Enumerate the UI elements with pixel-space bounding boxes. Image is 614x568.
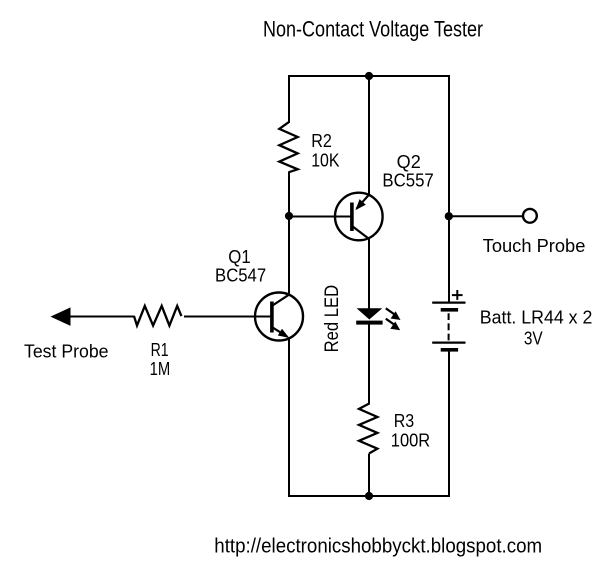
node top junction	[365, 72, 373, 80]
battery BT1 cell 2	[432, 342, 465, 344]
wire test probe to R1	[69, 316, 135, 318]
node touch probe junction	[445, 212, 453, 220]
svg-text:Touch Probe: Touch Probe	[483, 236, 586, 256]
svg-text:R3: R3	[394, 411, 415, 431]
svg-text:Red LED: Red LED	[322, 285, 343, 353]
svg-text:Non-Contact Voltage Tester: Non-Contact Voltage Tester	[263, 16, 483, 41]
svg-text:10K: 10K	[311, 150, 339, 170]
svg-text:BC557: BC557	[382, 170, 433, 190]
wire bottom rail	[289, 495, 450, 497]
svg-text:http://electronicshobbyckt.blo: http://electronicshobbyckt.blogspot.com	[214, 535, 542, 557]
battery internal dashed wire	[448, 313, 450, 341]
LED D1	[356, 308, 400, 330]
transistor Q1	[255, 293, 303, 341]
wire right branch top	[448, 75, 450, 216]
node A junction	[285, 212, 293, 220]
svg-text:Test Probe: Test Probe	[24, 342, 109, 362]
wire Q2 collector to LED	[368, 239, 370, 310]
wire node A to Q2 base	[289, 216, 351, 218]
battery plus sign	[452, 290, 463, 300]
wire battery to bottom rail	[448, 352, 450, 498]
svg-text:R2: R2	[311, 131, 332, 151]
wire left branch top to R2	[288, 75, 290, 123]
svg-text:R1: R1	[151, 340, 169, 360]
wire node A to Q1 collector	[288, 216, 290, 295]
svg-text:Q1: Q1	[228, 247, 250, 267]
wire R2 to node A	[288, 172, 290, 216]
touch probe terminal	[523, 209, 537, 223]
svg-text:Q2: Q2	[397, 152, 421, 172]
svg-text:BC547: BC547	[215, 266, 266, 286]
wire Q1 emitter to bottom rail	[288, 338, 290, 498]
svg-text:3V: 3V	[524, 329, 543, 349]
transistor Q2	[335, 193, 383, 241]
wire top rail	[289, 75, 450, 77]
svg-text:1M: 1M	[150, 359, 171, 379]
wire R3 to bottom rail	[368, 454, 370, 497]
battery BT1 cell 1	[432, 302, 465, 304]
svg-text:100R: 100R	[391, 431, 430, 451]
wire LED to R3	[368, 323, 370, 405]
resistor R3	[359, 404, 377, 454]
wire top junction to Q2 emitter	[368, 76, 370, 196]
node bottom junction	[365, 492, 373, 500]
resistor R2	[279, 122, 297, 172]
wire to touch probe	[449, 215, 523, 217]
wire junction to battery	[448, 216, 450, 303]
svg-text:Batt. LR44 x 2: Batt. LR44 x 2	[480, 308, 593, 328]
resistor R1	[134, 306, 181, 326]
wire R1 to Q1 base	[184, 316, 272, 318]
test probe arrow	[51, 307, 71, 326]
